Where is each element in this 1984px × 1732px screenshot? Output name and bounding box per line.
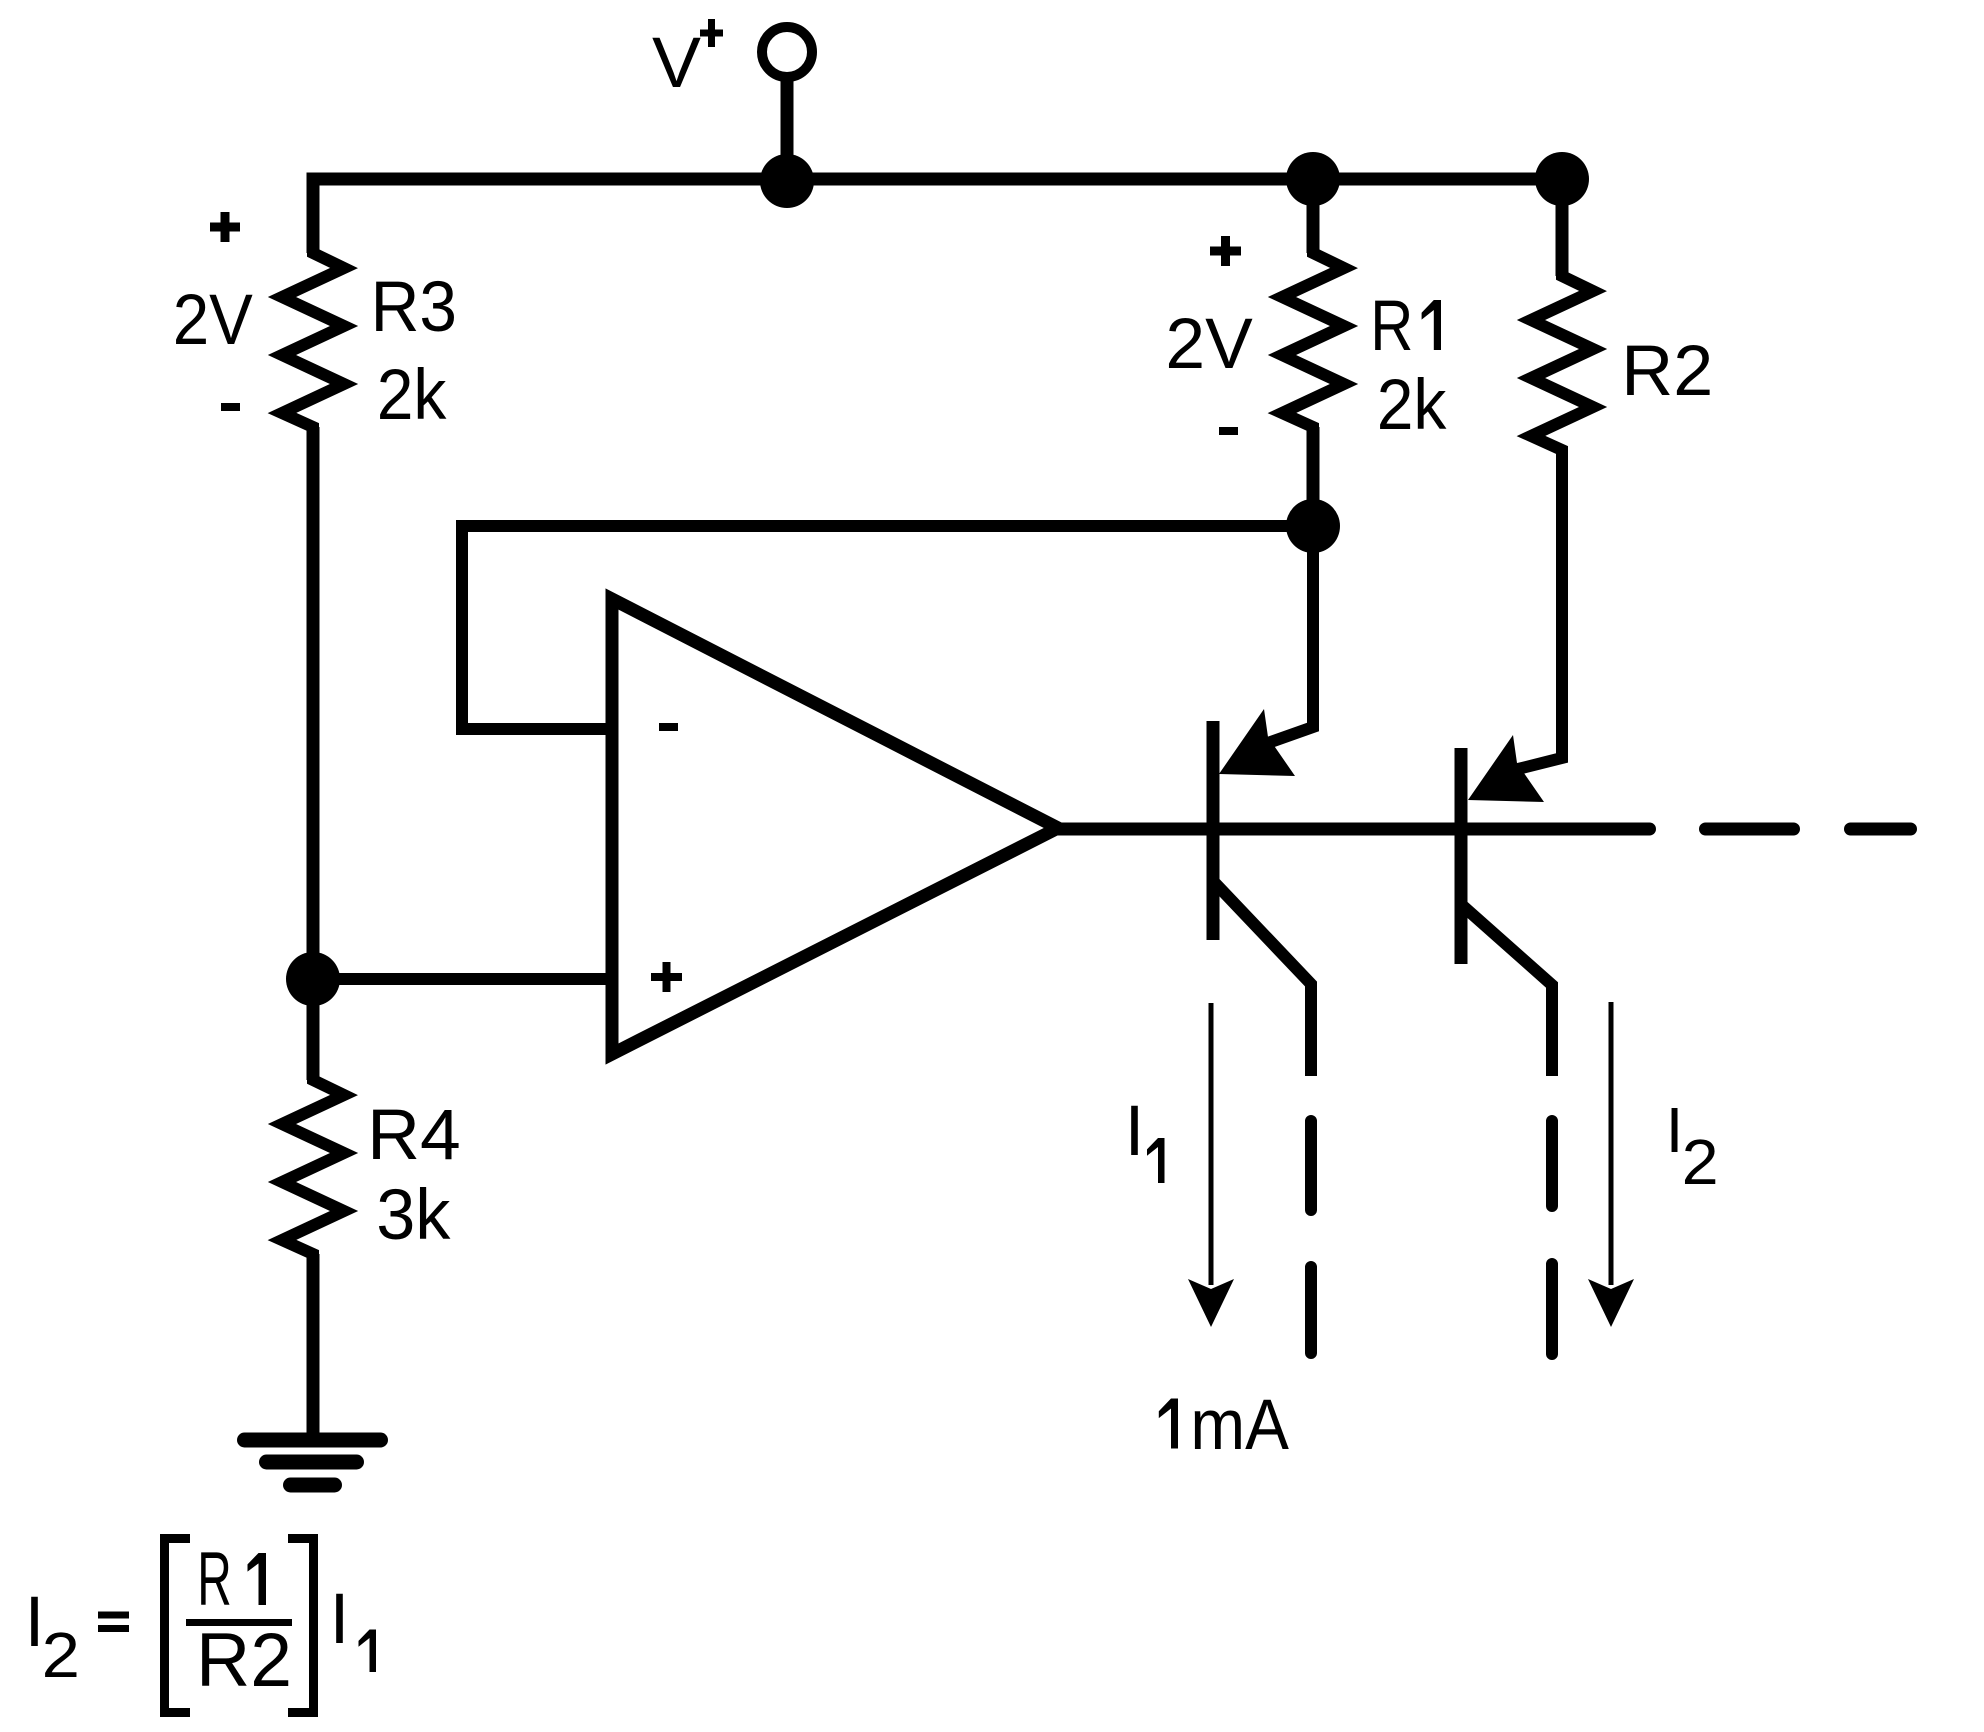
wire R3 bottom to node A [307,427,320,979]
eq right bracket [288,1539,314,1713]
svg-text:I: I [330,1580,350,1659]
eq equals sign [98,1615,129,1629]
svg-text:3k: 3k [376,1176,451,1255]
label I2 [1666,1094,1719,1198]
label + (op-amp non-inverting input) [651,962,682,992]
resistor R3 [282,245,344,435]
svg-text:mA: mA [1190,1386,1289,1465]
transistor Q1 collector dashed continuation [1305,1121,1317,1353]
label + (R1 polarity) [1210,236,1241,266]
wire dashed base line continuation [1706,823,1911,836]
transistor Q1 emitter arrowhead [1219,709,1295,776]
svg-text:2V: 2V [1165,305,1253,384]
ground [245,1440,381,1485]
node junction dot at R1 top [1286,152,1340,206]
label V+ [652,19,723,103]
svg-text:I: I [1125,1092,1145,1171]
svg-text:2k: 2k [377,356,447,435]
wire node A to R4 [307,979,320,1080]
transistor Q2 emitter arrowhead [1468,735,1544,802]
resistor R1 [1282,245,1344,435]
label I1 [1125,1092,1165,1183]
label 1mA [1159,1399,1178,1449]
wire V+ stub [781,81,794,179]
svg-text:V: V [652,24,702,103]
label - (R3 polarity) [221,403,240,411]
op-amp U1 [612,599,1058,1054]
eq label 1 subscript [359,1630,377,1673]
node junction dot at R2 top [1535,152,1589,206]
node A junction dot [286,952,340,1006]
transistor Q1 base bar [1207,721,1220,940]
transistor Q2 collector [1463,906,1552,1076]
svg-text:R2: R2 [196,1618,292,1703]
node junction dot at V+ [760,154,814,208]
node B junction dot (R1 bottom) [1286,499,1340,553]
transistor Q2 base bar [1455,748,1468,964]
wire R4 bottom to ground [307,1254,320,1441]
svg-text:R4: R4 [367,1096,461,1175]
svg-text:R: R [197,1537,232,1622]
current arrow I1 [1188,1003,1234,1327]
label + (R3 polarity) [210,212,240,242]
label - (op-amp inverting input) [659,723,678,731]
svg-text:2V: 2V [173,281,254,360]
eq left bracket [165,1539,191,1713]
wire R1 bottom stub [1307,427,1320,526]
equation I2 = [R1/R2] I1 [25,1537,376,1713]
svg-text:2k: 2k [1377,366,1447,445]
current arrow I2 [1588,1002,1634,1327]
svg-text:2: 2 [42,1619,80,1691]
resistor R2 [1531,268,1593,458]
transistor Q2 emitter (wire from R2, bend, diagonal) [1514,450,1562,770]
V+ terminal circle [762,27,812,77]
svg-text:R: R [1370,287,1413,366]
wire op-amp output / transistor base line [1058,823,1650,836]
eq fraction bar [186,1619,292,1626]
resistor R4 [282,1072,344,1262]
label - (R1 polarity) [1219,427,1238,435]
wire node A to op-amp + input [313,973,612,985]
transistor Q1 collector [1215,883,1311,1076]
svg-text:R2: R2 [1621,332,1713,411]
transistor Q1 emitter (wire from node B, bend, diagonal) [1265,526,1313,744]
transistor Q2 collector dashed continuation [1546,1121,1558,1354]
wire top rail with left and right column stubs [313,179,1562,276]
svg-text:2: 2 [1682,1126,1719,1198]
wire feedback from node B to op-amp - input [462,526,1313,729]
svg-text:R3: R3 [371,268,457,347]
wire R1 top stub [1307,179,1320,253]
